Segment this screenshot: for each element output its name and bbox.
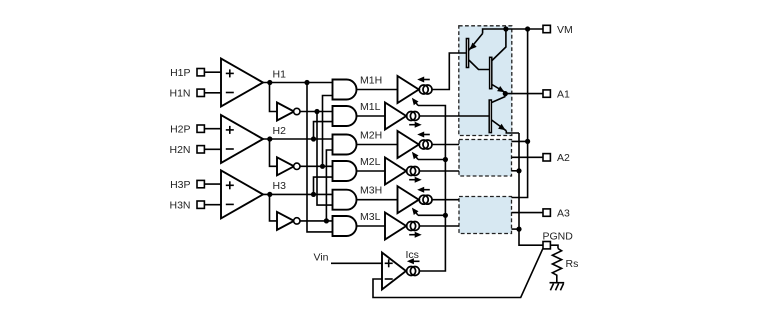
junction PGND rail / phase3 stub: [516, 227, 521, 232]
wire H3 to inverter 3: [270, 194, 278, 221]
svg-text:H2: H2: [273, 125, 287, 137]
AND gate M3H: [333, 190, 357, 210]
AND gate M2H: [333, 135, 357, 155]
wire H2 to inverter 2: [270, 139, 278, 166]
wire bus H1 (x307) to M3L lower input: [307, 83, 333, 232]
driver amplifier M2H: [398, 131, 419, 158]
svg-text:M3L: M3L: [360, 211, 381, 223]
wire H1 to inverter 1: [270, 83, 278, 112]
AND gate M3L: [333, 216, 357, 236]
node A1 junction: [503, 91, 508, 96]
svg-text:A1: A1: [557, 88, 570, 100]
svg-text:Rs: Rs: [566, 258, 579, 270]
terminal PGND: [543, 242, 550, 249]
svg-text:M3H: M3H: [360, 185, 382, 197]
driver amplifier M2L: [385, 158, 406, 185]
AND gate M1L: [333, 106, 357, 126]
wire H1P to comparator + input: [204, 71, 221, 73]
svg-text:M2H: M2H: [360, 130, 382, 142]
AND gate M2L: [333, 161, 357, 181]
junction PGND rail / phase2 stub: [516, 168, 521, 173]
current direction arrow (left) above M3H: [422, 189, 430, 191]
current-source symbol at M3H output: [419, 195, 428, 204]
wire control tap to M2H: [418, 159, 445, 161]
driver amplifier M3L: [385, 213, 406, 240]
terminal H3P: [197, 180, 204, 187]
transistor Q2 (NPN high-side darlington): [490, 57, 492, 88]
ground symbol: [550, 282, 565, 284]
wire M3H output: [357, 199, 398, 201]
junction /H2 bus: [320, 164, 325, 169]
junction Q2 collector / VM line: [503, 26, 508, 31]
wire M2H output into phase2 box: [432, 144, 459, 146]
wire VM rail down to phase3 box: [512, 29, 528, 198]
svg-text:A2: A2: [557, 152, 570, 164]
svg-text:M1H: M1H: [360, 75, 382, 87]
current-source symbol at M1L output: [407, 112, 416, 121]
AND gate M1H: [333, 80, 357, 100]
driver amplifier M3H: [398, 186, 419, 213]
svg-text:H2P: H2P: [170, 123, 190, 135]
node H1: [267, 80, 272, 85]
svg-text:H3P: H3P: [170, 179, 190, 191]
junction H3/bus: [311, 192, 316, 197]
junction H1/bus: [304, 80, 309, 85]
wire M3L output into phase3 box: [419, 225, 459, 227]
svg-text:VM: VM: [557, 24, 573, 36]
wire H2P to comparator + input: [204, 128, 221, 130]
junction /H3 bus: [324, 218, 329, 223]
current-source symbol at M1H output: [419, 85, 428, 94]
junction control bus / M3H tap: [443, 213, 448, 218]
terminal A3: [543, 209, 550, 216]
comparator H1 (hall amp 1): [221, 59, 263, 107]
wire phase3 PGND stub: [512, 228, 520, 230]
wire Vin to op-amp + input: [331, 262, 382, 264]
svg-text:PGND: PGND: [543, 230, 574, 242]
wire inverter 3 output row: [300, 220, 333, 222]
control arrow into M1H: [416, 102, 418, 105]
current-source symbol at M3L output: [407, 222, 416, 231]
wire M2H output: [357, 144, 398, 146]
phase 3 output stage dashed box (A3): [459, 197, 512, 234]
wire H2N to comparator - input: [204, 148, 221, 150]
wire H3P to comparator + input: [204, 183, 221, 185]
wire bus /H3 (x326.5) to M2H lower input: [326, 150, 332, 221]
comparator H3 (hall amp 3): [221, 170, 263, 218]
wire PGND rail: [519, 133, 543, 245]
wire M1L output: [357, 115, 386, 117]
svg-text:A3: A3: [557, 207, 570, 219]
junction /H1 bus: [314, 109, 319, 114]
inverter U1: [277, 103, 294, 121]
wire A1 node to terminal: [505, 93, 543, 95]
svg-text:H2N: H2N: [169, 144, 190, 156]
svg-text:H1P: H1P: [170, 67, 190, 79]
terminal H1N: [197, 89, 204, 96]
junction control bus / M2H tap: [443, 157, 448, 162]
current direction arrow (right) below M3L: [409, 234, 417, 236]
terminal A1: [543, 90, 550, 97]
wire bus H3 up to M2L lower input: [314, 177, 333, 194]
phase 1 output stage dashed box (A1): [459, 26, 512, 136]
svg-text:H3: H3: [273, 180, 287, 192]
svg-text:H1N: H1N: [169, 88, 190, 100]
op-amp Ics (current sense amp): [382, 253, 406, 290]
wire bus /H2 (x322.5) to M1H lower input: [323, 96, 333, 167]
wire M1H output to Q1 base: [432, 53, 466, 90]
junction VM rail / phase2 stub: [525, 139, 530, 144]
wire A3 line: [512, 212, 544, 214]
wire op-amp feedback from Rs/PGND node: [373, 249, 543, 298]
current direction arrow (left) above M2H: [422, 134, 430, 136]
wire inverter 2 output row: [300, 165, 333, 167]
driver amplifier M1L: [385, 103, 406, 130]
wire A1 node down to Q3 collector: [504, 94, 506, 97]
resistor Rs: [552, 249, 561, 283]
wire phase2 VM stub: [512, 140, 528, 142]
wire M2L output: [357, 170, 386, 172]
transistor Q1 (PNP high-side): [466, 39, 468, 68]
node H3: [267, 192, 272, 197]
driver amplifier M1H: [398, 76, 419, 103]
control arrow into M3H: [416, 212, 418, 215]
current-source symbol at M2L output: [407, 167, 416, 176]
wire H3N to comparator - input: [204, 204, 221, 206]
current direction arrow (left) above M1H: [422, 79, 430, 81]
current-source symbol Ics: [407, 267, 416, 276]
junction VM line / VM rail: [525, 26, 530, 31]
wire comparator H3 output row: [263, 193, 333, 195]
wire inverter 1 output row: [300, 111, 333, 113]
wire M3H output into phase3 box: [432, 199, 459, 201]
transistor Q3 (NPN low-side): [489, 100, 491, 133]
wire M2L output into phase2 box: [419, 170, 459, 172]
wire M3L output: [357, 225, 386, 227]
inverter U3: [277, 212, 294, 230]
wire comparator H1 output row: [263, 82, 333, 84]
current-source symbol at M2H output: [419, 140, 428, 149]
terminal H1P: [197, 69, 204, 76]
terminal H3N: [197, 201, 204, 208]
svg-text:Vin: Vin: [314, 251, 329, 263]
wire PGND terminal to Rs: [550, 245, 558, 248]
terminal A2: [543, 154, 550, 161]
svg-text:M1L: M1L: [360, 101, 381, 113]
comparator H2 (hall amp 2): [221, 115, 263, 163]
wire VM line from Q1 emitter: [483, 29, 543, 34]
control arrow into M2H: [416, 156, 418, 159]
svg-text:H1: H1: [273, 68, 287, 80]
inverter U2: [277, 157, 294, 175]
wire H1N to comparator - input: [204, 92, 221, 94]
junction H2/bus: [311, 136, 316, 141]
node H2: [267, 136, 272, 141]
wire A2 line: [512, 156, 544, 158]
wire Ics control bus: [418, 106, 445, 272]
current direction arrow above Ics: [411, 260, 419, 262]
wire bus /H1 (x316.5) to M3H lower input: [317, 112, 333, 206]
wire phase2 PGND stub: [512, 170, 520, 172]
wire bus H2 up to M1L lower input: [314, 122, 333, 139]
current direction arrow (right) below M1L: [409, 124, 417, 126]
phase 2 output stage dashed box (A2): [459, 140, 512, 177]
svg-text:M2L: M2L: [360, 156, 381, 168]
wire control tap to M3H: [418, 214, 445, 216]
wire comparator H2 output row: [263, 138, 333, 140]
current direction arrow (right) below M2L: [409, 179, 417, 181]
terminal H2N: [197, 146, 204, 153]
terminal VM: [543, 25, 550, 32]
wire M1L output to Q3 base: [419, 115, 489, 117]
svg-text:H3N: H3N: [169, 199, 190, 211]
wire M1H output: [357, 89, 398, 91]
terminal H2P: [197, 125, 204, 132]
